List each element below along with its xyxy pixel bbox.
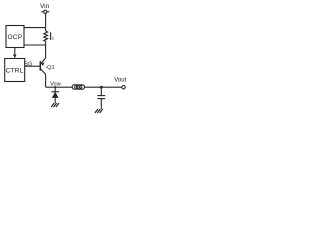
svg-text:i: i [52,36,53,42]
block OCP [6,26,24,48]
wire SG base drive [25,65,40,67]
wire inductor to junction [85,86,102,88]
terminal Vin [41,10,49,13]
arrow OCP to CTRL [13,48,17,59]
junction cap tap [100,86,103,89]
wire rail to Q1 emitter [45,41,47,58]
terminal Vout [122,86,125,89]
inductor L1 [72,85,84,90]
resistor Rs (sense) [44,31,48,41]
svg-text:Vin: Vin [40,3,50,10]
transistor Q1 (PNP) [40,58,45,74]
wire Vin rail [45,13,47,31]
wire Vsw rail [46,86,73,88]
svg-text:Vsw: Vsw [50,81,62,87]
diode D1 freewheel [51,87,59,103]
svg-text:OCP: OCP [7,34,22,41]
junction diode tap [54,86,56,88]
svg-text:Vout: Vout [114,77,126,83]
wire OCP bottom sense [24,44,46,46]
capacitor C1 [97,87,105,109]
label Li (resistor value) [50,32,54,42]
ground (diode) [51,103,59,107]
svg-text:CTRL: CTRL [6,67,24,74]
block CTRL [5,59,25,82]
svg-text:-Q1: -Q1 [45,65,54,71]
ground (cap) [95,109,103,113]
wire OCP top sense [24,27,46,29]
wire junction to Vout [101,86,122,88]
wire Q1 collector down [45,74,47,87]
